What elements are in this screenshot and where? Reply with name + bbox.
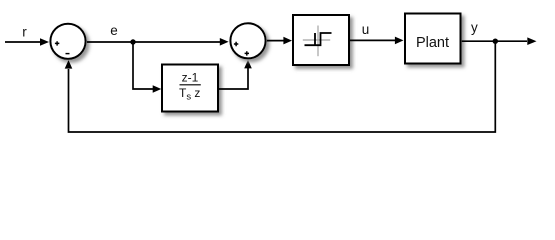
svg-text:Plant: Plant [416, 35, 449, 51]
svg-text:z-1: z-1 [182, 71, 199, 85]
svg-text:u: u [362, 22, 370, 37]
svg-text:r: r [22, 25, 27, 40]
svg-text:e: e [110, 23, 118, 38]
svg-text:y: y [471, 20, 478, 35]
